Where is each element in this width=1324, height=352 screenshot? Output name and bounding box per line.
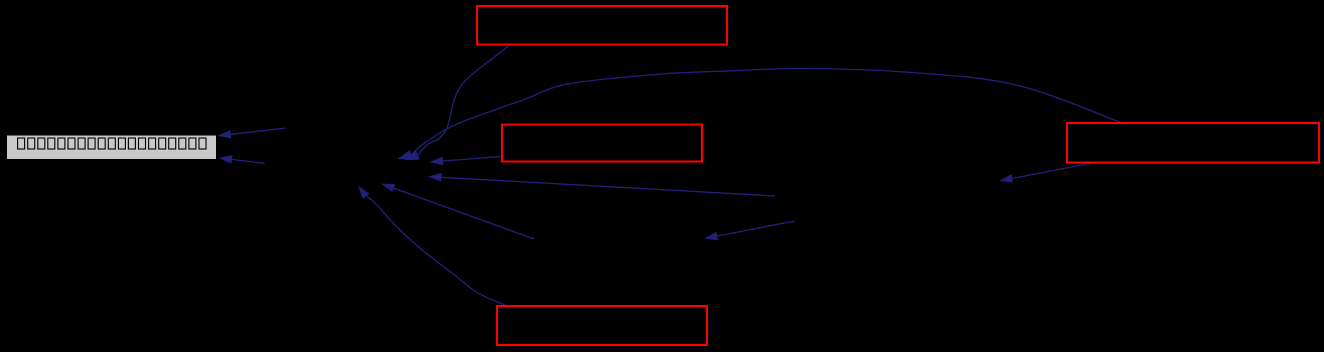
arrowhead E4 (398, 150, 413, 160)
edge E6 (442, 177, 775, 196)
node: current function (gray) (7, 135, 217, 160)
arrowhead E2 (219, 155, 233, 164)
edge E7 (394, 188, 534, 239)
edge E10 (1012, 163, 1092, 178)
edge E3 (418, 46, 509, 155)
edge E5 (443, 157, 501, 162)
arrowhead E3 (405, 150, 420, 160)
arrowhead E7 (381, 184, 395, 193)
node: middle red box (502, 125, 702, 162)
edge E2 (232, 159, 265, 163)
edge E8 (367, 197, 505, 305)
node: top red box (477, 6, 727, 45)
arrowhead E1 (218, 130, 232, 139)
arrowhead E9 (704, 232, 718, 241)
arrowhead E8 (358, 186, 370, 199)
edge E1 (231, 128, 285, 134)
edge E4 (411, 68, 1121, 154)
node: right red box (1067, 123, 1319, 163)
arrowhead E10 (999, 174, 1013, 182)
arrowhead E5 (430, 157, 444, 166)
edge E9 (717, 221, 795, 236)
arrowhead E6 (428, 173, 442, 182)
node: bottom red box (497, 306, 707, 345)
tofu glyphs row (18, 138, 206, 149)
